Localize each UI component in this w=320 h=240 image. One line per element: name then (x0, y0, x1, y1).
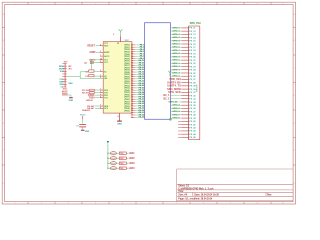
svg-text:P9_15: P9_15 (189, 41, 196, 43)
svg-text:P9_28: P9_28 (189, 82, 196, 84)
svg-text:GPIO_23: GPIO_23 (169, 101, 179, 103)
svg-text:GPIO_5: GPIO_5 (172, 44, 180, 46)
wire header to bus (67, 75, 80, 77)
svg-text:V: V (113, 34, 115, 36)
bus corner junction (169, 118, 172, 121)
svg-text:8: 8 (100, 96, 101, 98)
svg-text:Q1: Q1 (84, 62, 88, 64)
frame outer border (2, 2, 295, 204)
svg-text:GND: GND (117, 124, 122, 126)
svg-text:Size: A4: Size: A4 (178, 193, 188, 196)
svg-text:C2: C2 (85, 76, 89, 78)
capacitor C3 plates (62, 92, 68, 94)
svg-text:P9_33: P9_33 (189, 99, 196, 101)
svg-text:GPIO_7: GPIO_7 (172, 50, 180, 52)
svg-text:GPIO_8: GPIO_8 (172, 118, 180, 120)
stub column (82, 116, 84, 119)
svg-text:GPIO_7: GPIO_7 (172, 114, 180, 116)
svg-text:P9_40: P9_40 (189, 120, 196, 123)
crystal Q1 body (90, 61, 93, 63)
wire C7 to ground (82, 127, 84, 130)
svg-text:P9_12: P9_12 (189, 31, 196, 33)
capacitor C7 plates (79, 123, 86, 125)
frame column numbers (14, 3, 284, 205)
svg-text:1k0: 1k0 (120, 153, 123, 155)
svg-text:GPIO_2: GPIO_2 (172, 66, 180, 68)
svg-text:SDA/SCL: SDA/SCL (82, 109, 91, 112)
svg-text:P9_44: P9_44 (189, 133, 196, 136)
svg-text:P9_32: P9_32 (189, 95, 196, 97)
svg-text:P9_43: P9_43 (189, 130, 196, 133)
svg-text:P9_23: P9_23 (189, 66, 196, 68)
svg-text:GPIO_9: GPIO_9 (172, 56, 180, 58)
svg-text:GPIO_4: GPIO_4 (172, 104, 180, 107)
IC left pin numbers (100, 44, 102, 109)
frame row ticks left/right (2, 28, 295, 166)
svg-text:3: 3 (100, 61, 101, 63)
frame inner border (5, 5, 294, 202)
svg-text:Rev:: Rev: (267, 194, 272, 196)
ground symbol column (81, 129, 85, 131)
svg-text:GPIO_1: GPIO_1 (172, 63, 180, 65)
svg-text:LED4: LED4 (129, 167, 136, 170)
long wire to IC (80, 78, 103, 80)
svg-text:GPIO_0: GPIO_0 (172, 60, 180, 62)
wire XTAL1 (92, 59, 96, 61)
svg-text:2: 2 (100, 70, 101, 72)
svg-text:P9_34: P9_34 (189, 101, 196, 104)
svg-text:(PB5): (PB5) (124, 110, 130, 112)
svg-text:Title:: Title: (178, 190, 184, 193)
svg-text:G: G (117, 116, 119, 118)
svg-text:GND: GND (68, 83, 73, 85)
svg-text:GPIO_5: GPIO_5 (172, 108, 180, 110)
wire C3 to ground (66, 94, 68, 96)
svg-text:C:\AVR\BBB-GPIO-Web_1_2.sch: C:\AVR\BBB-GPIO-Web_1_2.sch (178, 187, 214, 190)
svg-text:I2C_2: I2C_2 (163, 98, 170, 100)
svg-text:P9_22: P9_22 (189, 63, 196, 65)
svg-text:GND: GND (85, 131, 90, 133)
svg-text:GPIO_4: GPIO_4 (172, 71, 180, 74)
svg-text:GPIO_4: GPIO_4 (172, 39, 180, 42)
LED D1 with resistor R5 (107, 152, 135, 155)
svg-text:VCC: VCC (59, 79, 64, 81)
svg-text:P9_45: P9_45 (189, 136, 196, 139)
svg-text:P9_19: P9_19 (189, 53, 196, 55)
svg-text:GPIO_0: GPIO_0 (172, 27, 180, 29)
svg-text:Page: 1/1, modified: 28.04.20: Page: 1/1, modified: 28.04.2014 (178, 198, 213, 201)
VCC supply symbol above IC (120, 36, 122, 41)
svg-text:1k0: 1k0 (120, 163, 123, 165)
svg-text:GPIO_3: GPIO_3 (172, 37, 180, 39)
svg-text:P9HDR: P9HDR (196, 84, 198, 92)
svg-text:GPIO_8: GPIO_8 (172, 53, 180, 55)
svg-text:LED2: LED2 (129, 158, 136, 160)
svg-text:1k0: 1k0 (120, 168, 123, 170)
LED D4 with resistor R8 (107, 167, 135, 170)
svg-text:AVCC: AVCC (104, 55, 110, 58)
svg-text:P9_41: P9_41 (189, 123, 196, 126)
svg-text:P9_35: P9_35 (189, 105, 196, 107)
svg-text:P9_29: P9_29 (189, 86, 196, 88)
svg-text:P9_16: P9_16 (189, 44, 196, 46)
svg-text:ISP: ISP (68, 66, 72, 68)
pin header SV1 body (64, 63, 66, 87)
svg-text:P9_42: P9_42 (189, 127, 196, 130)
svg-text:P9_21: P9_21 (189, 60, 196, 62)
bus rectangle (145, 23, 171, 120)
svg-text:P9_14: P9_14 (189, 36, 196, 39)
svg-text:1k0: 1k0 (120, 158, 123, 160)
svg-text:C7: C7 (76, 126, 78, 128)
svg-text:Date: 28.04.2014 19:28: Date: 28.04.2014 19:28 (194, 193, 219, 196)
svg-text:GPIO_1: GPIO_1 (172, 31, 180, 33)
svg-text:GPIO_6: GPIO_6 (172, 47, 180, 49)
IC left pin stub (100, 55, 103, 57)
IC U1 body (103, 42, 132, 113)
title block outline (177, 169, 293, 202)
svg-text:AREF: AREF (89, 51, 96, 54)
svg-text:RESET: RESET (87, 46, 95, 48)
svg-text:VCC3: VCC3 (80, 114, 86, 116)
svg-text:P9_38: P9_38 (189, 115, 196, 117)
connector SV2 body (188, 26, 190, 140)
frame column ticks top/bottom (28, 2, 271, 204)
svg-text:AREF: AREF (104, 51, 110, 54)
svg-text:P9_27: P9_27 (189, 79, 196, 81)
svg-text:LED3: LED3 (129, 163, 136, 165)
IC left pin names inside body (104, 46, 110, 111)
svg-text:P9_24: P9_24 (189, 69, 196, 72)
svg-text:Sheet: 1/1: Sheet: 1/1 (178, 185, 190, 188)
frame row letters (3, 13, 296, 185)
connector SV2 pin rows (163, 27, 196, 139)
svg-text:P9_11: P9_11 (189, 28, 196, 30)
svg-text:P9_18: P9_18 (189, 50, 196, 52)
svg-text:GPIO_3: GPIO_3 (172, 69, 180, 71)
svg-text:P9_20: P9_20 (189, 57, 196, 59)
supply arrow LED block (107, 141, 110, 143)
ground symbol below IC (119, 113, 121, 121)
svg-text:P9_17: P9_17 (189, 47, 196, 49)
ground symbol left cluster (69, 97, 73, 99)
svg-text:3: 3 (100, 51, 101, 53)
svg-text:GPIO_6: GPIO_6 (172, 111, 180, 113)
svg-text:P9_25: P9_25 (189, 73, 196, 75)
svg-text:BBB_P9H: BBB_P9H (190, 23, 201, 25)
svg-text:7: 7 (100, 55, 101, 57)
IC right-side pins, wires and net labels (124, 44, 145, 119)
svg-text:GND: GND (69, 100, 74, 102)
crystal branch wire (91, 60, 93, 70)
svg-text:GPIO_2: GPIO_2 (172, 34, 180, 36)
wire XTAL2 (92, 61, 104, 63)
svg-text:P9_30: P9_30 (189, 89, 196, 91)
svg-text:9: 9 (100, 77, 101, 79)
svg-text:P9_26: P9_26 (189, 76, 196, 78)
svg-text:P9_37: P9_37 (189, 111, 196, 113)
LED D3 with resistor R7 (107, 162, 135, 165)
svg-text:P9_39: P9_39 (189, 118, 196, 120)
svg-text:SCK: SCK (60, 71, 65, 73)
LED block vertical wire (107, 143, 109, 168)
svg-text:P9_31: P9_31 (189, 92, 196, 94)
svg-text:P9_13: P9_13 (189, 34, 196, 36)
svg-text:JP1: JP1 (68, 69, 72, 71)
svg-text:LED1: LED1 (129, 153, 136, 155)
svg-text:GND16: GND16 (86, 100, 94, 102)
svg-text:6: 6 (100, 44, 101, 46)
LED D2 with resistor R6 (107, 157, 135, 160)
svg-text:P9_36: P9_36 (189, 108, 196, 110)
svg-text:VCC: VCC (125, 40, 130, 42)
svg-text:I2C_1: I2C_1 (163, 95, 170, 97)
left vertical wire (79, 72, 81, 79)
svg-text:SPI1_SCK: SPI1_SCK (168, 90, 181, 94)
